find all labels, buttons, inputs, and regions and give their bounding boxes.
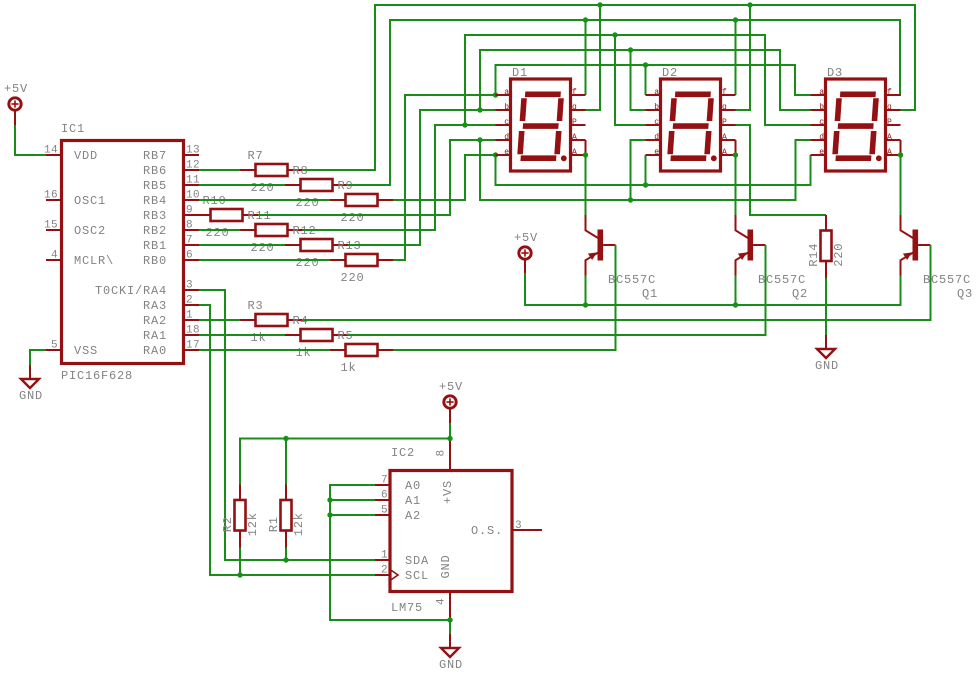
wire net g to D2 [736,5,751,110]
junction A2 [327,512,332,517]
svg-text:VSS: VSS [74,344,98,358]
wire RA1 to R4 [199,334,285,336]
junction R2 SCL [237,572,242,577]
svg-text:12k: 12k [246,512,260,536]
wire A0 A1 A2 tie to GND net [330,485,450,620]
svg-text:A0: A0 [405,479,421,493]
svg-text:220: 220 [296,256,320,270]
resistor R1 12k [267,485,306,548]
wire net g from R7 via top line [303,5,915,170]
svg-text:8: 8 [186,220,193,232]
wire net b from R12 to D1 pin b [348,110,496,245]
svg-text:RB3: RB3 [143,209,167,223]
svg-text:GND: GND [439,658,463,672]
svg-text:RA0: RA0 [143,344,167,358]
svg-text:e: e [819,148,824,157]
7-segment display D1 [496,66,586,171]
svg-text:RB6: RB6 [143,164,167,178]
wire net d to D2 [631,140,646,200]
svg-text:15: 15 [44,220,58,232]
wire net a to D2 [645,65,647,95]
junction net e D1 [493,152,498,157]
wire R5 to Q1 base [393,245,616,350]
+5V supply symbol above IC2 [439,380,463,423]
svg-text:RA2: RA2 [143,314,167,328]
svg-text:MCLR\: MCLR\ [74,254,114,268]
svg-text:d: d [504,133,509,142]
svg-text:b: b [819,103,824,112]
svg-text:Q3: Q3 [957,287,973,301]
+5V supply symbol top-left [4,82,28,125]
wire net b via top line to D3 [480,50,811,110]
svg-text:Q2: Q2 [792,287,808,301]
svg-text:c: c [504,118,509,127]
svg-text:P: P [722,118,727,127]
svg-text:a: a [504,88,509,97]
resistor R9 220 [330,179,393,225]
svg-text:e: e [504,148,509,157]
svg-text:11: 11 [186,175,200,187]
resistor R3 1k [240,299,303,345]
svg-text:R7: R7 [248,149,264,163]
junction net g D1 [597,2,602,7]
junction Q2 emitter rail [733,302,738,307]
svg-text:18: 18 [186,325,200,337]
junction D2 anode [733,152,738,157]
svg-text:RB5: RB5 [143,179,167,193]
wire R2 bottom to SCL [239,548,241,576]
svg-text:RB1: RB1 [143,239,167,253]
svg-text:A: A [572,133,577,142]
svg-text:1: 1 [381,550,388,562]
wire +5V emitter rail [525,273,901,305]
svg-text:5: 5 [51,340,58,352]
wire RA0 to R5 [199,349,330,351]
svg-text:220: 220 [341,211,365,225]
wire RB2 to R11 [199,229,240,231]
svg-text:PIC16F628: PIC16F628 [61,369,133,383]
junction net d D1 [477,137,482,142]
svg-text:R14: R14 [807,243,821,267]
resistor R11 220 [240,209,303,255]
wire IC1 VSS to ground [30,350,46,365]
junction net e D2 [643,182,648,187]
transistor Q1 BC557C [586,215,616,276]
svg-text:8: 8 [436,449,448,456]
svg-text:GND: GND [815,359,839,373]
wire D2 anode to Q2 collector [735,155,737,215]
svg-text:1k: 1k [296,346,312,360]
svg-text:f: f [572,88,577,97]
svg-text:RA3: RA3 [143,299,167,313]
junction net c D2 [612,32,617,37]
resistor R13 220 [330,239,393,285]
svg-text:c: c [654,118,659,127]
ground symbol below R14 [815,335,839,373]
transistor Q2 BC557C [736,215,766,276]
wire net g to D1 [586,5,601,110]
wire net c via top line to D3 [465,35,811,125]
svg-text:7: 7 [381,475,388,487]
wire +5V to pullup resistors [240,439,450,485]
junction net a D1 [493,92,498,97]
IC U1 microcontroller IC1 PIC16F628 body [61,122,184,383]
svg-text:220: 220 [296,196,320,210]
wire R1 top [285,439,287,485]
svg-text:10: 10 [186,190,200,202]
svg-text:d: d [654,133,659,142]
svg-text:4: 4 [51,250,58,262]
7-segment display D3 [811,66,901,171]
resistor R12 220 [285,224,348,270]
svg-text:1: 1 [186,310,193,322]
wire net e lower line to D3 [496,155,811,185]
junction net g D2 [747,2,752,7]
svg-text:IC2: IC2 [391,446,415,460]
wire net f to D2 [735,20,737,95]
wire RB6 to R7 [199,169,240,171]
junction R1 top [283,436,288,441]
svg-text:T0CKI/RA4: T0CKI/RA4 [95,284,167,298]
svg-text:1k: 1k [251,331,267,345]
wire +5V to IC2 pin8 [449,423,451,439]
svg-text:220: 220 [206,226,230,240]
junction IC2 pin4 gnd [447,617,452,622]
svg-text:e: e [654,148,659,157]
svg-text:d: d [819,133,824,142]
svg-text:P: P [572,118,577,127]
svg-text:RB7: RB7 [143,149,167,163]
resistor R5 1k [330,329,393,375]
IC U2 temperature sensor IC2 LM75 [375,439,542,621]
svg-text:f: f [887,88,892,97]
svg-text:6: 6 [186,250,193,262]
svg-text:GND: GND [439,554,453,578]
junction Q1 emitter rail [583,302,588,307]
svg-text:220: 220 [832,243,846,267]
svg-text:Q1: Q1 [642,287,658,301]
IC1 right pins RB7-RB0 RA4-RA0 [95,145,200,359]
svg-text:RA1: RA1 [143,329,167,343]
wire net c from R11 to D1 pin c [303,125,496,230]
transistor Q3 BC557C [901,215,931,276]
svg-text:A: A [887,133,892,142]
svg-text:7: 7 [186,235,193,247]
svg-text:9: 9 [186,205,193,217]
wire D2 anode tie [735,140,737,155]
junction net b D2 [628,47,633,52]
svg-text:+5V: +5V [439,380,463,394]
junction D3 anode [898,152,903,157]
wire IC2 pin4 to ground [449,620,451,634]
svg-text:12k: 12k [292,512,306,536]
wire +5V to IC1 VDD [15,125,46,155]
svg-text:220: 220 [341,271,365,285]
wire net a via top line to D3 [496,65,811,95]
wire A2 branch [330,514,375,516]
svg-text:b: b [504,103,509,112]
svg-text:RB4: RB4 [143,194,167,208]
wire R4 to Q2 base [348,245,766,335]
svg-text:+5V: +5V [4,82,28,96]
svg-text:VDD: VDD [74,149,98,163]
svg-text:A2: A2 [405,509,421,523]
junction A1 [327,497,332,502]
svg-text:14: 14 [44,145,58,157]
svg-text:g: g [572,103,577,112]
junction IC2 pin8 [447,436,452,441]
svg-text:+5V: +5V [514,231,538,245]
svg-text:2: 2 [186,295,193,307]
junction net a D2 [643,62,648,67]
IC1 left pins 14/16/15/4/5 VDD OSC1 OSC2 MCLR VSS [44,145,114,359]
svg-text:SDA: SDA [405,554,429,568]
junction R1 SDA [283,557,288,562]
+5V supply symbol near Q1 [514,231,538,274]
svg-text:R3: R3 [248,299,264,313]
svg-text:SCL: SCL [405,569,429,583]
svg-text:b: b [654,103,659,112]
svg-text:A1: A1 [405,494,421,508]
svg-text:LM75: LM75 [391,601,423,615]
svg-text:3: 3 [515,520,522,532]
wire net f from R8 via top line [348,20,900,185]
svg-text:+VS: +VS [441,480,455,504]
wire D2 decimal point to R14 [736,125,827,215]
wire net d lower line to D3 [480,140,811,200]
wire RB0 to R13 [199,259,330,261]
wire Q1 emitter to rail [585,276,587,306]
wire RA3 to LM75 SCL [199,305,375,575]
wire R1 bottom to SDA [285,548,287,561]
svg-text:A: A [572,148,577,157]
svg-text:a: a [819,88,824,97]
junction net c D1 [462,122,467,127]
junction net f D2 [733,17,738,22]
svg-text:a: a [654,88,659,97]
wire RA2 to R3 [199,319,240,321]
svg-text:g: g [887,103,892,112]
svg-text:A: A [722,148,727,157]
wire D3 anode tie [900,140,902,155]
junction D1 anode [583,152,588,157]
svg-text:12: 12 [186,160,200,172]
wire net a from R13 to D1 pin a [393,95,496,260]
svg-text:IC1: IC1 [61,122,85,136]
wire RB1 to R12 [199,244,285,246]
svg-text:A: A [887,148,892,157]
wire A1 branch [330,499,375,501]
wire RB5 to R8 [199,184,285,186]
resistor R2 12k [221,485,260,548]
ground symbol below IC1 VSS [19,365,43,403]
resistor R8 220 [285,164,348,210]
svg-text:16: 16 [44,190,58,202]
7-segment display D2 [646,66,736,171]
wire D3 anode to Q3 collector [900,155,902,215]
svg-text:f: f [722,88,727,97]
svg-text:P: P [887,118,892,127]
svg-text:5: 5 [381,505,388,517]
wire net d from R10 to D1 pin d [258,140,496,215]
wire D1 anode tie [585,140,587,155]
wire net e from R9 to D1 pin e [393,155,496,200]
svg-text:4: 4 [436,598,448,605]
wire RA4 to LM75 SDA [199,290,375,560]
wire R14 to ground [825,278,827,335]
wire net e to D2 [645,155,647,185]
svg-text:OSC2: OSC2 [74,224,106,238]
resistor R10 220 [195,194,258,240]
svg-text:6: 6 [381,490,388,502]
svg-text:220: 220 [251,241,275,255]
svg-text:R2: R2 [221,516,235,532]
svg-text:1k: 1k [341,361,357,375]
svg-text:GND: GND [19,389,43,403]
wire Q2 emitter to rail [735,276,737,306]
ground symbol below IC2 [439,634,463,672]
svg-text:220: 220 [251,181,275,195]
svg-text:13: 13 [186,145,200,157]
junction net b D1 [477,107,482,112]
svg-text:O.S.: O.S. [471,524,503,538]
wire net c to D2 [615,35,646,125]
svg-text:c: c [819,118,824,127]
wire RB4 to R9 [199,199,330,201]
junction net f D1 [583,17,588,22]
resistor R14 220 [807,215,846,278]
svg-text:17: 17 [186,340,200,352]
svg-text:OSC1: OSC1 [74,194,106,208]
svg-text:g: g [722,103,727,112]
wire net b to D2 [631,50,646,110]
svg-text:RB2: RB2 [143,224,167,238]
wire net f to D1 [585,20,587,95]
svg-text:A: A [722,133,727,142]
svg-text:2: 2 [381,565,388,577]
resistor R4 1k [285,314,348,360]
wire D1 anode to Q1 collector [585,155,587,215]
svg-text:3: 3 [186,280,193,292]
resistor R7 220 [240,149,303,195]
wire R3 to Q3 base [303,245,931,320]
svg-text:R1: R1 [267,516,281,532]
svg-text:RB0: RB0 [143,254,167,268]
junction net d D2 [628,197,633,202]
